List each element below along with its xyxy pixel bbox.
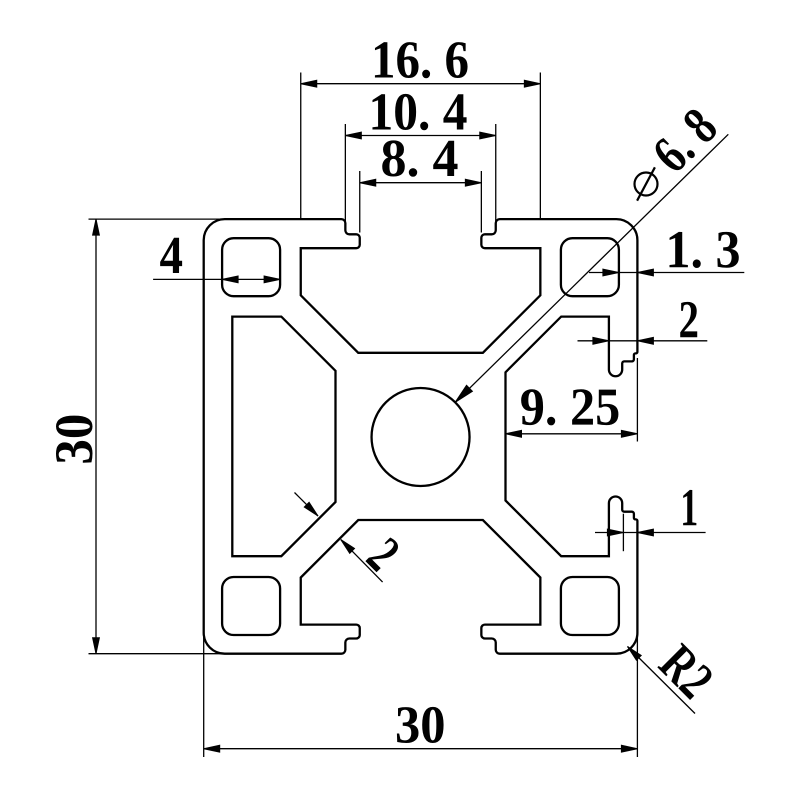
dimension 16.6 (301, 83, 541, 85)
dimension 2 web thickness (295, 493, 319, 517)
svg-text:30: 30 (395, 694, 446, 754)
svg-text:8. 4: 8. 4 (380, 128, 458, 188)
center hole diameter 6.8 (372, 388, 470, 486)
dimension 30 left (95, 219, 97, 654)
dimension 2 right (578, 340, 708, 342)
dimension 1 (595, 532, 706, 534)
bottom-left corner screw hole 4mm (222, 577, 280, 635)
aluminum profile outer boundary with T-slots (204, 219, 638, 654)
svg-text:2: 2 (678, 289, 699, 349)
svg-text:1: 1 (680, 477, 698, 537)
dimension 10.4 extension lines (344, 124, 346, 221)
svg-text:30: 30 (44, 414, 104, 465)
dimension 10.4 (345, 135, 495, 137)
dimension 30 bottom (204, 748, 638, 750)
top-right corner screw hole 4mm (561, 238, 619, 296)
dimension 16.6 extension lines (300, 73, 302, 219)
dimension 8.4 (360, 182, 482, 184)
dimension 30 left extension lines (89, 218, 226, 220)
dimension 9.25 extension line (636, 358, 638, 442)
dimension 4 (corner hole width) (153, 278, 280, 280)
svg-text:4: 4 (160, 225, 184, 285)
svg-text:9. 25: 9. 25 (520, 377, 621, 437)
dimension 1.3 (589, 272, 744, 274)
dimension 9.25 (506, 433, 638, 435)
bottom-right corner screw hole 4mm (561, 577, 619, 635)
dimension 30 bottom extension lines (203, 633, 205, 757)
dimension 1 extension line (622, 514, 624, 552)
leader diameter 6.8 (455, 134, 728, 402)
dimension 8.4 extension lines (359, 171, 361, 233)
svg-text:1. 3: 1. 3 (665, 219, 740, 279)
left side cavity hexagon (232, 317, 335, 557)
top-left corner screw hole 4mm (222, 238, 280, 296)
leader R2 (628, 647, 696, 714)
